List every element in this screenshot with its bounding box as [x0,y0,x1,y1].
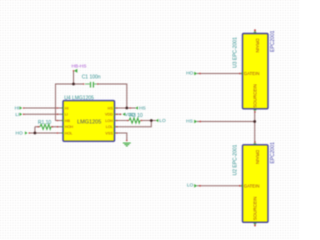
svg-text:U2 EPC-2001: U2 EPC-2001 [233,144,239,175]
svg-text:HO: HO [186,70,193,76]
svg-text:HS: HS [186,119,193,125]
svg-text:U3 EPC-2001: U3 EPC-2001 [233,37,239,68]
svg-text:HI: HI [65,106,69,110]
svg-text:VSS: VSS [105,131,113,135]
svg-text:LI: LI [15,112,19,118]
svg-text:HS: HS [139,106,146,112]
svg-text:LI: LI [65,113,68,117]
svg-text:LOL: LOL [106,125,113,129]
svg-text:VDD: VDD [105,113,113,117]
svg-text:GATEIN: GATEIN [244,71,260,76]
svg-text:U4 LMG1205: U4 LMG1205 [64,96,94,102]
svg-text:HB: HB [65,119,71,123]
svg-text:DRAIN: DRAIN [255,150,260,164]
svg-text:HOH: HOH [65,125,74,129]
svg-text:C1 100n: C1 100n [82,74,101,80]
svg-text:SOURCEIN: SOURCEIN [252,197,257,221]
svg-text:HO: HO [15,131,22,137]
svg-text:LMG1205: LMG1205 [77,119,101,125]
svg-text:HI: HI [15,106,20,112]
svg-text:R1 10: R1 10 [38,120,52,126]
svg-text:EPC2001: EPC2001 [270,142,276,164]
svg-text:EPC2001: EPC2001 [270,30,276,52]
svg-text:HS: HS [108,106,114,110]
svg-text:DRAIN: DRAIN [255,38,260,52]
svg-text:SOURCEIN: SOURCEIN [252,84,257,108]
svg-text:GATEIN: GATEIN [244,183,260,188]
svg-text:R3 10: R3 10 [129,113,143,119]
svg-text:LO: LO [187,183,194,189]
svg-text:LO: LO [159,118,166,124]
svg-text:HOL: HOL [65,131,73,135]
svg-text:LOH: LOH [105,119,113,123]
svg-text:HB-HS: HB-HS [72,64,87,70]
